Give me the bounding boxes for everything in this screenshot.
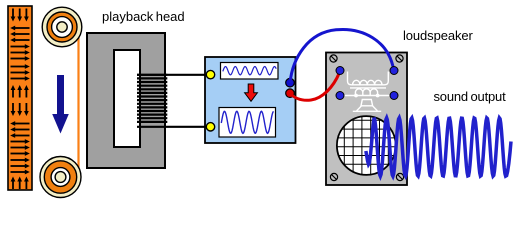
wire to amplifier (bottom)	[137, 126, 207, 128]
loudspeaker cabinet	[326, 53, 407, 186]
sound wave	[366, 118, 511, 176]
amplification arrow (red)	[245, 84, 258, 101]
screw bottom-left	[330, 173, 337, 180]
coil windings	[137, 75, 167, 122]
driver symbol (white)	[341, 72, 393, 112]
output terminal (blue)	[286, 78, 295, 87]
tape between reels	[77, 27, 79, 177]
supply reel (top)	[42, 7, 82, 47]
screw top-right	[396, 55, 403, 62]
small signal trace	[223, 67, 276, 75]
tape magnetization arrows	[10, 9, 30, 190]
blue speaker wire	[290, 29, 394, 83]
svg-text:playback head: playback head	[102, 9, 185, 24]
grille mesh	[337, 116, 396, 174]
small signal scope	[221, 63, 279, 80]
speaker terminal mid-right	[390, 92, 398, 100]
grille	[337, 116, 396, 175]
screw bottom-right	[396, 173, 403, 180]
input terminal (top, yellow)	[206, 70, 214, 78]
red speaker wire	[290, 73, 340, 101]
input terminal (bottom, yellow)	[206, 123, 214, 131]
magnetic tape strip (magnified)	[8, 6, 32, 190]
speaker terminal top-left	[336, 67, 344, 75]
svg-text:sound output: sound output	[434, 89, 507, 104]
amplified signal scope	[219, 108, 276, 138]
amplified signal trace	[221, 111, 273, 133]
speaker terminal top-right	[390, 67, 398, 75]
output terminal (red)	[286, 89, 295, 98]
amplifier box	[205, 57, 296, 143]
take-up reel (bottom)	[40, 157, 81, 198]
speaker terminal mid-left	[336, 92, 344, 100]
wire to amplifier (top)	[137, 74, 207, 76]
playback head core	[87, 33, 165, 168]
svg-text:loudspeaker: loudspeaker	[403, 28, 473, 43]
tape travel arrow	[52, 75, 69, 134]
screw top-left	[330, 55, 337, 62]
